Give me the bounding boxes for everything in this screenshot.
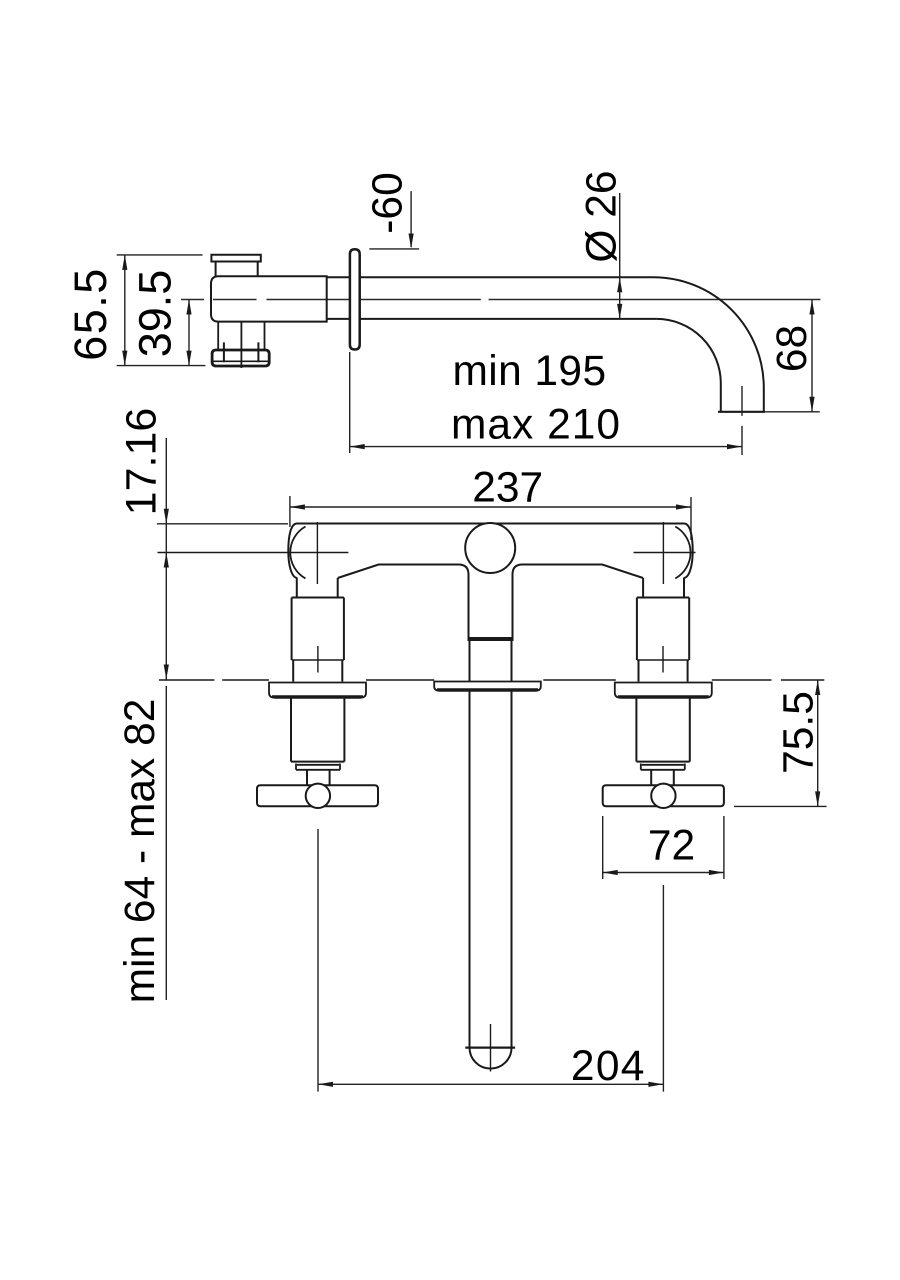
right escutcheon <box>615 683 712 698</box>
bracket cap inner line <box>214 360 269 362</box>
arrow 17.16 bottom <box>164 553 169 568</box>
dim 39.5 line <box>188 300 190 366</box>
left collar <box>296 764 340 770</box>
svg-text:237: 237 <box>472 465 543 512</box>
left valve step line <box>292 659 344 661</box>
left handle bar <box>257 785 378 806</box>
dim 237 line <box>290 506 691 508</box>
arrow 204 left <box>318 1082 333 1087</box>
left valve hole arc <box>290 527 305 579</box>
arrow min-max right <box>727 444 742 449</box>
svg-text:65.5: 65.5 <box>65 267 116 361</box>
arrow 72 right <box>709 870 724 875</box>
wall flange <box>350 249 360 349</box>
arrow 65.5 top <box>122 255 127 270</box>
wall-mount inlet neck <box>216 262 258 277</box>
dim 17.16 / min-max leader upper <box>165 438 167 680</box>
arrow 60 down <box>409 234 414 249</box>
svg-text:39.5: 39.5 <box>130 270 181 358</box>
dim 65.5 extension lines <box>117 255 206 366</box>
left valve body <box>292 598 344 682</box>
left stem <box>291 698 344 762</box>
manifold bar right end cap <box>684 524 693 579</box>
outlet tick upper <box>741 386 743 416</box>
left valve neck <box>297 578 338 598</box>
manifold bar left end cap <box>288 524 297 579</box>
arrow d26 up <box>617 277 622 292</box>
spout drop tube <box>470 641 512 1048</box>
center escutcheon <box>434 682 541 691</box>
right handle neck <box>651 770 674 786</box>
bar bottom profile left <box>338 565 469 642</box>
left handle knob <box>306 784 330 808</box>
dim 72 extensions <box>603 816 724 879</box>
right valve body <box>637 598 689 682</box>
dim min 64 - max 82 leader lower <box>165 686 167 1000</box>
outlet tick lower / min-max right extension <box>741 426 743 455</box>
arrow 39.5 bottom <box>186 351 191 366</box>
svg-text:min 195: min 195 <box>453 348 607 395</box>
svg-text:17.16: 17.16 <box>118 408 166 516</box>
dim 204 line <box>318 1083 663 1085</box>
spout tube straight section <box>327 277 657 319</box>
dim 65.5 line <box>124 255 126 366</box>
outlet bottom extension for 68 <box>765 411 820 413</box>
dim min-max extension <box>349 352 351 453</box>
svg-text:min 64 - max 82: min 64 - max 82 <box>117 699 164 1004</box>
svg-text:75.5: 75.5 <box>776 691 823 774</box>
arrow deck down <box>164 665 169 680</box>
right valve tick <box>662 646 664 673</box>
svg-text:68: 68 <box>769 325 816 372</box>
dim 204 extensions <box>318 829 663 1092</box>
svg-text:72: 72 <box>648 823 695 870</box>
spout curve outer <box>653 277 764 412</box>
right valve hole arc <box>675 527 690 579</box>
spout curve inner <box>656 319 720 412</box>
arrow 17.16 top <box>164 509 169 524</box>
arrow 65.5 bottom <box>122 351 127 366</box>
dim 60 leader <box>410 191 412 247</box>
arrow 204 right <box>648 1082 663 1087</box>
spout tube rounded cap <box>470 1048 512 1069</box>
bar bottom profile right <box>513 565 644 642</box>
right collar <box>641 764 685 770</box>
wall-mount body <box>211 276 327 321</box>
dim 60 extension line <box>369 248 419 250</box>
arrow min-max left <box>350 444 365 449</box>
arrow 237 left <box>290 504 305 509</box>
arrow 75.5 bottom <box>815 791 820 806</box>
left valve centermark <box>158 522 349 584</box>
svg-text:max 210: max 210 <box>451 402 621 449</box>
handle bottom extension for 75.5 <box>734 805 827 807</box>
dim 75.5 line <box>817 680 819 806</box>
wall-mount inlet top band <box>211 255 260 262</box>
spout tube outlet chord <box>465 1046 515 1048</box>
dim min-max line <box>350 446 742 448</box>
spout housing joint <box>469 637 513 641</box>
left escutcheon <box>269 683 366 698</box>
svg-text:-60: -60 <box>365 172 412 233</box>
right valve step line <box>637 659 689 661</box>
arrow 39.5 top <box>186 300 191 315</box>
right handle knob <box>651 784 675 808</box>
arrow 72 left <box>603 870 618 875</box>
arrow 75.5 top <box>815 680 820 695</box>
bracket cap <box>212 350 269 366</box>
spout tube end tick <box>490 1024 492 1072</box>
dim diameter 26 line <box>619 193 621 319</box>
left handle neck <box>307 770 330 786</box>
dim 68 line <box>811 300 813 412</box>
left valve tick <box>317 646 319 673</box>
spout outlet rim <box>718 411 765 413</box>
bar top extension for 17.16 <box>157 523 288 525</box>
dim 237 extensions <box>290 496 691 540</box>
right handle bar <box>603 785 724 806</box>
centerline (spout axis) <box>181 299 820 301</box>
arrow 68 top <box>809 300 814 315</box>
right stem <box>636 698 689 762</box>
svg-text:204: 204 <box>571 1043 646 1090</box>
svg-text:Ø 26: Ø 26 <box>579 170 626 262</box>
arrow d26 down <box>617 304 622 319</box>
center mixer circle <box>465 523 515 573</box>
manifold bar top edge <box>297 523 684 525</box>
right valve neck <box>643 578 684 598</box>
deck line <box>159 679 824 681</box>
bracket screw ticks <box>224 342 259 362</box>
right valve centermark <box>634 522 696 584</box>
arrow 68 bottom <box>809 397 814 412</box>
arrow 237 right <box>676 504 691 509</box>
dim 72 line <box>603 872 724 874</box>
bracket legs below body <box>218 323 264 369</box>
